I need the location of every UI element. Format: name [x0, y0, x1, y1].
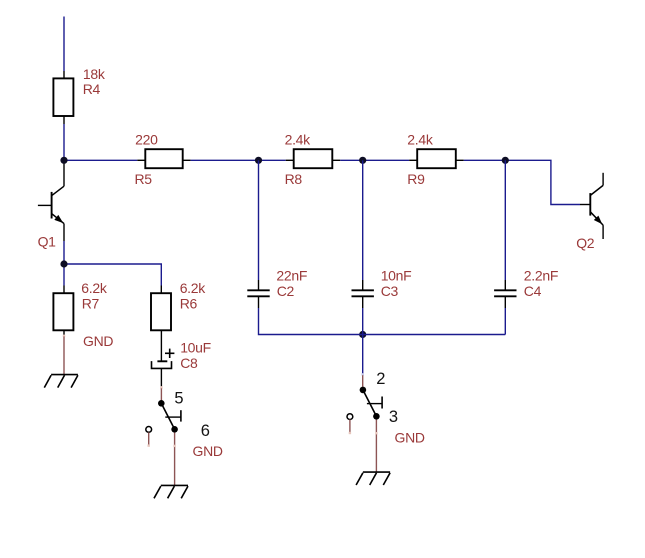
resistor R9: [409, 149, 464, 168]
svg-text:GND: GND: [395, 430, 425, 446]
transistor Q2: [580, 173, 603, 239]
pin marker R7 bottom: [63, 335, 65, 337]
svg-text:220: 220: [135, 131, 158, 147]
svg-text:C4: C4: [524, 283, 542, 299]
wire node E to R6 column: [64, 264, 161, 286]
svg-text:2.4k: 2.4k: [407, 131, 434, 147]
node F junction dot: [359, 331, 366, 338]
svg-text:R7: R7: [82, 295, 100, 311]
wire node F down to switch S2: [362, 335, 364, 374]
svg-text:3: 3: [389, 408, 398, 426]
wire node C down to C3: [362, 160, 364, 280]
resistor R5: [137, 149, 190, 168]
pin marker S1 open terminal: [148, 444, 150, 446]
svg-text:Q1: Q1: [38, 234, 57, 250]
svg-text:C2: C2: [277, 283, 295, 299]
svg-text:18k: 18k: [83, 66, 106, 82]
ground under S2: [356, 472, 390, 485]
svg-text:GND: GND: [83, 333, 113, 349]
svg-text:GND: GND: [193, 443, 223, 459]
svg-text:6.2k: 6.2k: [180, 280, 207, 296]
pin marker S2 top: [362, 373, 364, 375]
svg-text:10uF: 10uF: [180, 339, 211, 355]
svg-text:2.4k: 2.4k: [285, 131, 312, 147]
wire R4 to node A: [63, 124, 65, 160]
wire bottom bus from C2 to C4: [259, 308, 506, 335]
svg-text:R6: R6: [180, 295, 198, 311]
svg-text:2.2nF: 2.2nF: [524, 267, 558, 283]
capacitor C8: [152, 330, 175, 386]
svg-text:R4: R4: [83, 81, 101, 97]
wire C4 to bus: [504, 308, 506, 335]
capacitor C2: [247, 280, 269, 308]
resistor R8: [286, 149, 341, 168]
wire Q1 emitter to node E: [63, 241, 65, 264]
svg-text:6: 6: [201, 422, 210, 440]
node D junction dot: [502, 157, 509, 164]
resistor R7: [53, 286, 73, 336]
wire GND net under R7: [63, 337, 65, 375]
svg-text:22nF: 22nF: [276, 267, 307, 283]
svg-text:R9: R9: [407, 171, 425, 187]
pin marker S2 lower: [375, 432, 377, 434]
ground under R7: [44, 375, 78, 388]
resistor R6: [151, 286, 171, 331]
wire stub under S2 open terminal: [349, 419, 351, 432]
svg-text:C3: C3: [381, 283, 399, 299]
wire node B down to C2: [258, 160, 260, 280]
switch S2: [347, 387, 382, 420]
svg-text:6.2k: 6.2k: [81, 280, 108, 296]
svg-text:C8: C8: [180, 355, 198, 371]
svg-text:10nF: 10nF: [381, 267, 412, 283]
transistor Q1: [38, 160, 64, 241]
switch S1: [146, 400, 181, 433]
capacitor C3: [352, 280, 374, 308]
svg-text:Q2: Q2: [576, 235, 595, 251]
node E junction dot: [60, 260, 67, 267]
wire node D down to C4: [504, 160, 506, 280]
node B junction dot: [255, 157, 262, 164]
svg-text:R5: R5: [135, 171, 153, 187]
capacitor C4: [494, 280, 516, 308]
resistor R4: [53, 71, 73, 124]
wire node A to R5: [64, 159, 137, 161]
wire S2 to ground: [375, 420, 377, 473]
wire node E down to R7: [63, 264, 65, 286]
wire R8 to R9 through node C: [340, 159, 409, 161]
wire C8 to switch S1: [160, 388, 162, 400]
svg-text:2: 2: [376, 370, 385, 388]
wire S1 to ground: [174, 433, 176, 486]
pin marker S1 lower: [173, 445, 175, 447]
wire C3 to bus: [362, 308, 364, 335]
node C junction dot: [359, 157, 366, 164]
pin marker S2 open terminal: [349, 432, 351, 434]
wire R9 to node D and corner toward Q2: [464, 160, 580, 204]
wire into S2: [362, 375, 364, 387]
svg-text:5: 5: [174, 389, 183, 407]
svg-text:R8: R8: [285, 171, 303, 187]
pin marker C8 bottom: [160, 386, 162, 388]
wire top feed into R4: [63, 17, 65, 72]
wire stub under S1 open terminal: [148, 432, 150, 444]
node A junction dot: [60, 157, 67, 164]
ground under S1: [154, 485, 188, 498]
wire R5 to R8 through node B: [191, 159, 286, 161]
